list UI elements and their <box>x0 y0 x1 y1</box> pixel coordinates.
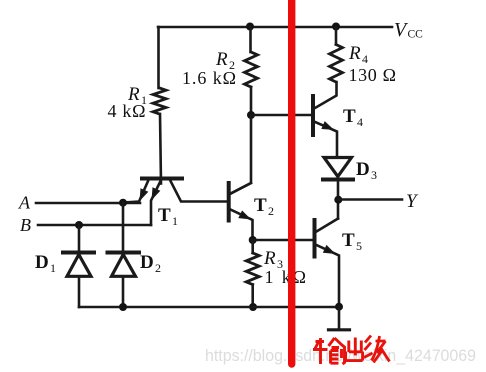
node R4 top junction <box>332 23 340 31</box>
svg-text:R: R <box>215 49 228 70</box>
wire input B line <box>38 224 151 227</box>
svg-text:2: 2 <box>155 261 161 275</box>
wire R1 upper <box>157 27 160 88</box>
wire T4 base line <box>251 114 313 117</box>
svg-text:R: R <box>263 248 276 269</box>
wire top Vcc rail <box>158 26 392 29</box>
wire R2 upper <box>249 27 252 52</box>
transistor T5 <box>315 219 340 308</box>
node T5 base tap <box>249 236 257 244</box>
svg-text:T: T <box>254 195 267 216</box>
wire R4 upper stub <box>335 27 338 45</box>
divider red line <box>288 0 295 364</box>
label output-stage 输出级 <box>313 338 345 364</box>
transistor T2 <box>229 183 253 240</box>
diode D2 <box>108 253 140 277</box>
wire input A line <box>36 202 140 205</box>
svg-text:T: T <box>343 106 356 127</box>
resistor R1 <box>153 88 166 114</box>
svg-text:CC: CC <box>408 29 424 41</box>
svg-text:1: 1 <box>50 261 56 275</box>
svg-text:D: D <box>35 252 49 273</box>
svg-text:5: 5 <box>356 239 362 253</box>
svg-text:T: T <box>342 230 355 251</box>
svg-text:130 Ω: 130 Ω <box>349 65 397 85</box>
wire D3 to Y node <box>337 180 340 219</box>
node D2 bottom junction <box>119 303 127 311</box>
svg-text:D: D <box>140 252 154 273</box>
node R2 top junction <box>246 23 254 31</box>
svg-text:R: R <box>348 43 361 64</box>
node ground junction <box>335 303 343 311</box>
svg-text:4: 4 <box>357 115 363 129</box>
svg-text:4: 4 <box>362 52 368 66</box>
node B junction <box>75 221 83 229</box>
svg-text:1.6 kΩ: 1.6 kΩ <box>182 68 236 88</box>
node Y junction <box>334 196 342 204</box>
resistor R4 <box>330 45 343 83</box>
wire R1 lower to T1 base <box>160 114 161 184</box>
resistor R3 <box>246 253 259 285</box>
svg-text:A: A <box>18 193 31 213</box>
node R3 bottom junction <box>249 303 257 311</box>
wire D2 cathode to rail <box>122 276 125 307</box>
wire R3 upper stub <box>251 240 254 253</box>
transistor T4 <box>313 82 337 157</box>
wire R2 lower <box>250 87 253 115</box>
wire ground rail <box>79 306 339 309</box>
svg-text:T: T <box>158 205 171 226</box>
wire D1 cathode to rail <box>78 276 81 307</box>
resistor R2 <box>245 52 258 87</box>
node A junction <box>119 199 127 207</box>
wire D2 anode stub from A <box>122 203 125 251</box>
svg-text:1 kΩ: 1 kΩ <box>265 267 307 287</box>
diode D3 <box>323 158 353 180</box>
ground <box>329 307 350 330</box>
wire D1 anode stub <box>78 225 81 251</box>
transistor T1 <box>123 179 228 226</box>
diode D1 <box>63 253 94 277</box>
node T4 base tap <box>247 111 255 119</box>
wire output Y line <box>338 198 402 201</box>
wire T5 base line <box>253 239 314 242</box>
wire R3 lower stub <box>251 285 254 308</box>
svg-text:D: D <box>356 159 370 180</box>
svg-text:1: 1 <box>172 214 178 228</box>
svg-text:B: B <box>20 215 31 235</box>
wire T2 collector riser <box>230 115 251 194</box>
svg-text:3: 3 <box>371 168 377 182</box>
svg-text:4 kΩ: 4 kΩ <box>108 101 146 121</box>
svg-text:2: 2 <box>268 204 274 218</box>
